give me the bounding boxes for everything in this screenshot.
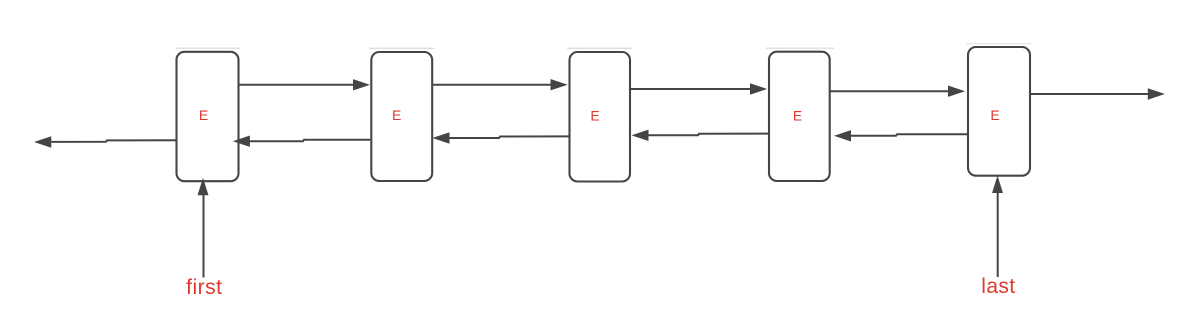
wire: backward arrow box2 to box1: [250, 140, 371, 141]
arrowhead: right exit arrow: [1148, 89, 1163, 99]
wire: first pointer stem: [203, 194, 205, 278]
wire: forward arrow box1 to box2: [239, 84, 356, 86]
svg-text:E: E: [590, 107, 599, 123]
arrowhead: forward box4 to box5: [949, 86, 964, 96]
arrowhead: first pointer (points up at box 1): [198, 180, 208, 195]
wire: backward arrow box3 to box2: [449, 136, 570, 138]
node box 5: [968, 47, 1030, 176]
wire: forward arrow box4 to box5: [830, 90, 950, 92]
svg-text:E: E: [199, 107, 208, 123]
wire: last pointer stem: [997, 192, 999, 277]
node box 3: [570, 52, 631, 182]
node box 4: [769, 52, 830, 181]
arrowhead: forward box2 to box3: [551, 80, 566, 90]
arrowhead: backward box2 to box1: [234, 136, 249, 146]
wire: backward arrow box4 to box3: [648, 134, 769, 136]
ghost sketch stroke above node box 4: [766, 47, 834, 49]
svg-text:E: E: [793, 107, 802, 123]
svg-text:E: E: [392, 107, 401, 123]
wire: left exit arrow from box 1: [52, 140, 177, 142]
arrowhead: forward box1 to box2: [354, 80, 369, 90]
arrowhead: forward box3 to box4: [751, 84, 766, 94]
arrowhead: backward box4 to box3: [633, 130, 648, 140]
ghost sketch stroke above node box 3: [567, 47, 632, 49]
ghost sketch stroke above node box 1: [175, 47, 240, 49]
arrowhead: backward box5 to box4: [836, 131, 851, 141]
ghost sketch stroke above node box 5: [966, 43, 1032, 45]
arrowhead: left exit arrow: [36, 137, 51, 147]
wire: forward arrow box2 to box3: [432, 84, 552, 86]
svg-text:first: first: [186, 276, 222, 299]
svg-text:E: E: [990, 107, 999, 123]
arrowhead: backward box3 to box2: [434, 133, 449, 143]
wire: forward arrow box3 to box4: [630, 88, 752, 90]
node box 2: [371, 52, 432, 181]
arrowhead: last pointer (points up at box 5): [993, 177, 1003, 192]
wire: right exit arrow from box 5: [1030, 93, 1149, 95]
svg-text:last: last: [981, 275, 1015, 298]
wire: backward arrow box5 to box4: [851, 134, 969, 136]
ghost sketch stroke above node box 2: [369, 47, 434, 49]
node box 1: [177, 52, 239, 181]
